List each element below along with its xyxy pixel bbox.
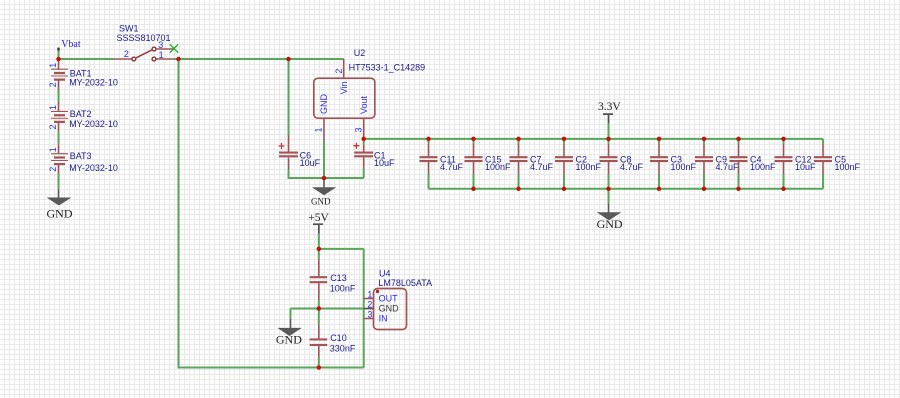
- svg-text:IN: IN: [379, 313, 388, 323]
- svg-text:GND: GND: [311, 196, 331, 206]
- svg-text:C10: C10: [330, 333, 347, 343]
- svg-text:GND: GND: [47, 206, 73, 220]
- svg-text:3.3V: 3.3V: [598, 101, 621, 113]
- svg-text:HT7533-1_C14289: HT7533-1_C14289: [349, 63, 426, 73]
- svg-text:10uF: 10uF: [374, 158, 395, 168]
- svg-text:Vout: Vout: [359, 95, 369, 114]
- svg-text:330nF: 330nF: [330, 344, 356, 354]
- svg-text:100nF: 100nF: [835, 162, 861, 172]
- svg-text:100nF: 100nF: [485, 162, 511, 172]
- svg-text:3: 3: [367, 310, 372, 320]
- svg-text:4.7uF: 4.7uF: [530, 162, 554, 172]
- svg-text:LM78L05ATA: LM78L05ATA: [378, 278, 432, 288]
- svg-text:Vbat: Vbat: [61, 39, 81, 50]
- svg-text:BAT3: BAT3: [70, 151, 92, 161]
- svg-text:2: 2: [48, 124, 58, 129]
- svg-text:GND: GND: [379, 303, 400, 313]
- svg-text:3: 3: [158, 40, 163, 50]
- svg-text:U2: U2: [354, 48, 366, 58]
- svg-text:2: 2: [48, 167, 58, 172]
- svg-text:U4: U4: [379, 268, 391, 278]
- svg-text:1: 1: [314, 127, 324, 132]
- svg-text:1: 1: [48, 105, 58, 110]
- svg-text:MY-2032-10: MY-2032-10: [69, 119, 118, 129]
- svg-text:4.7uF: 4.7uF: [716, 162, 740, 172]
- svg-text:10uF: 10uF: [300, 158, 321, 168]
- svg-text:GND: GND: [319, 94, 329, 115]
- svg-text:2: 2: [124, 49, 129, 59]
- svg-text:2: 2: [334, 69, 344, 74]
- svg-text:2: 2: [367, 300, 372, 310]
- svg-text:4.7uF: 4.7uF: [620, 162, 644, 172]
- svg-text:OUT: OUT: [379, 293, 399, 303]
- svg-text:BAT2: BAT2: [70, 109, 92, 119]
- svg-text:100nF: 100nF: [671, 162, 697, 172]
- svg-text:100nF: 100nF: [330, 283, 356, 293]
- svg-text:2: 2: [48, 82, 58, 87]
- svg-text:MY-2032-10: MY-2032-10: [69, 163, 118, 173]
- svg-text:100nF: 100nF: [576, 162, 602, 172]
- svg-text:C13: C13: [330, 273, 347, 283]
- svg-text:100nF: 100nF: [750, 162, 776, 172]
- svg-text:MY-2032-10: MY-2032-10: [69, 78, 118, 88]
- svg-text:Vin: Vin: [339, 81, 349, 94]
- svg-text:4.7uF: 4.7uF: [440, 162, 464, 172]
- svg-text:1: 1: [48, 147, 58, 152]
- svg-text:3: 3: [354, 127, 364, 132]
- svg-text:1: 1: [367, 290, 372, 300]
- svg-text:+5V: +5V: [308, 212, 329, 224]
- svg-text:GND: GND: [597, 217, 623, 231]
- svg-text:GND: GND: [276, 332, 302, 346]
- svg-text:10uF: 10uF: [795, 162, 816, 172]
- svg-text:1: 1: [48, 63, 58, 68]
- svg-text:1: 1: [159, 50, 164, 60]
